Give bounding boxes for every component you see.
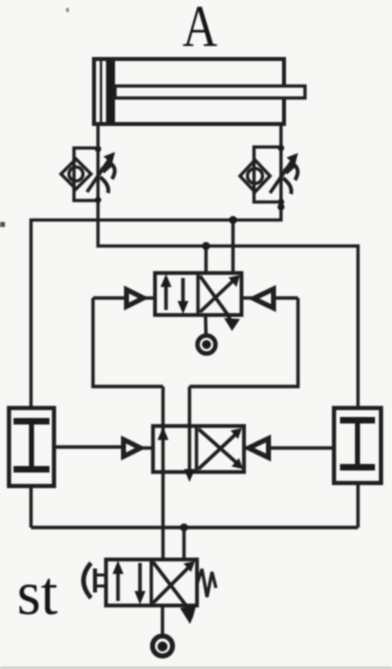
bottom supply bus wire <box>31 526 358 529</box>
FC1 lower hook <box>100 177 108 193</box>
left limit cylinder LS1 <box>9 408 54 486</box>
FC2 throttle hook <box>291 163 298 180</box>
svg-text:st: st <box>17 559 58 628</box>
U1 cross arrow A-T <box>200 279 235 312</box>
FC1 node top <box>95 146 101 152</box>
wire U2 right top port <box>188 387 191 478</box>
ST bottom wire <box>161 606 164 636</box>
FC1 check valve ball <box>69 167 83 181</box>
FC1 throttle hook <box>108 162 115 179</box>
LS1 bottom stub <box>29 486 32 528</box>
U1 right pilot wire <box>242 296 254 299</box>
cylinder piston <box>106 60 115 123</box>
valve ST body <box>106 560 197 606</box>
junction dot A-line <box>202 242 210 250</box>
U2 down arrow head <box>184 469 195 482</box>
valve U1 divider <box>196 273 199 315</box>
FC2 lower hook <box>283 178 291 194</box>
wire U2 through line <box>161 387 164 560</box>
right limit cylinder LS2 <box>334 408 381 483</box>
junction dot B-line <box>229 216 237 224</box>
U2 left pilot wires <box>54 445 123 448</box>
LS2 bottom stub <box>356 483 359 528</box>
FC1 throttle palm <box>102 162 112 171</box>
wire bus to valve ST <box>182 528 185 560</box>
junction dot bus <box>180 524 188 532</box>
source P2 circle <box>153 636 173 656</box>
FC1 node bottom <box>95 197 101 203</box>
U1 left pilot drop wire <box>93 298 163 387</box>
FC2 throttle palm <box>285 163 295 172</box>
ST cross arrow 1 <box>153 562 188 611</box>
wire branch to valve U1 top-left <box>204 246 207 273</box>
U1 P wire <box>204 315 208 335</box>
flow control valve FC2 bracket <box>254 147 281 202</box>
svg-text:A: A <box>183 0 218 59</box>
FC2 throttle arrow <box>270 158 294 193</box>
ST down arrow <box>138 563 142 600</box>
U1 left pilot wire <box>93 296 126 299</box>
valve U1 body <box>155 273 242 315</box>
wire branch to valve U1 top-right <box>231 220 234 273</box>
ST spring <box>197 569 216 597</box>
speck top-left <box>66 8 69 12</box>
cylinder left cap inner line <box>100 59 102 124</box>
U2 cross arrow 1 <box>199 429 239 464</box>
cylinder piston rod <box>115 86 305 98</box>
source P1 circle <box>198 336 216 354</box>
ST push button <box>84 563 92 598</box>
U1 right pilot drop wire <box>190 298 299 387</box>
U2 up arrow head <box>158 427 169 440</box>
ST up arrow <box>116 565 120 601</box>
flow control valve FC1 bracket <box>74 148 98 201</box>
valve U2 body <box>153 426 244 472</box>
U2 left pilot triangle <box>124 440 141 457</box>
edge artifact tick <box>0 222 5 227</box>
U2 right pilot triangle <box>249 439 269 458</box>
U1 right pilot triangle <box>254 289 274 308</box>
U1 up arrow <box>164 278 168 310</box>
wire cylinder right port <box>31 124 281 408</box>
U1 cross arrow P-B <box>200 276 231 322</box>
ST cross arrow 2 <box>153 566 190 603</box>
U1 down arrow <box>181 278 185 309</box>
FC2 check valve ball <box>248 169 263 184</box>
cylinder A body <box>94 59 284 124</box>
wire cylinder left port <box>98 124 358 408</box>
U1 left pilot triangle <box>127 290 144 307</box>
U2 cross arrow 2 <box>199 433 238 469</box>
U2 divider <box>195 426 198 472</box>
FC2 node bottom <box>278 199 284 205</box>
FC1 throttle arrow <box>87 157 111 192</box>
ST divider <box>150 560 153 606</box>
U2 right pilot wires <box>244 446 248 449</box>
junction dot at right flow valve bottom <box>278 204 285 211</box>
FC2 node top <box>278 145 284 151</box>
FC1 check valve diamond <box>61 159 91 189</box>
FC2 check valve diamond <box>240 160 270 192</box>
bottom edge smudge <box>0 667 392 669</box>
